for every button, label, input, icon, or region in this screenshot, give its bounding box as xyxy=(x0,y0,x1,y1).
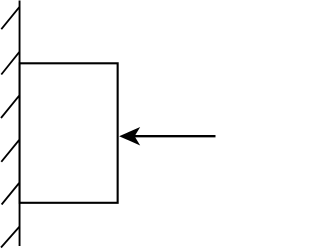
block (rectangle against wall) xyxy=(20,63,118,203)
hatch mark 4 xyxy=(1,140,19,162)
force arrowhead (barbed, pointing left at block) xyxy=(119,127,140,146)
force arrow shaft xyxy=(134,135,216,137)
hatch mark 5 xyxy=(2,183,20,205)
hatch mark 3 xyxy=(1,95,20,118)
wall (fixed support) vertical line xyxy=(19,1,21,247)
hatch mark 1 xyxy=(1,7,19,29)
hatch mark 6 xyxy=(1,227,20,248)
hatch mark 2 xyxy=(1,52,19,75)
